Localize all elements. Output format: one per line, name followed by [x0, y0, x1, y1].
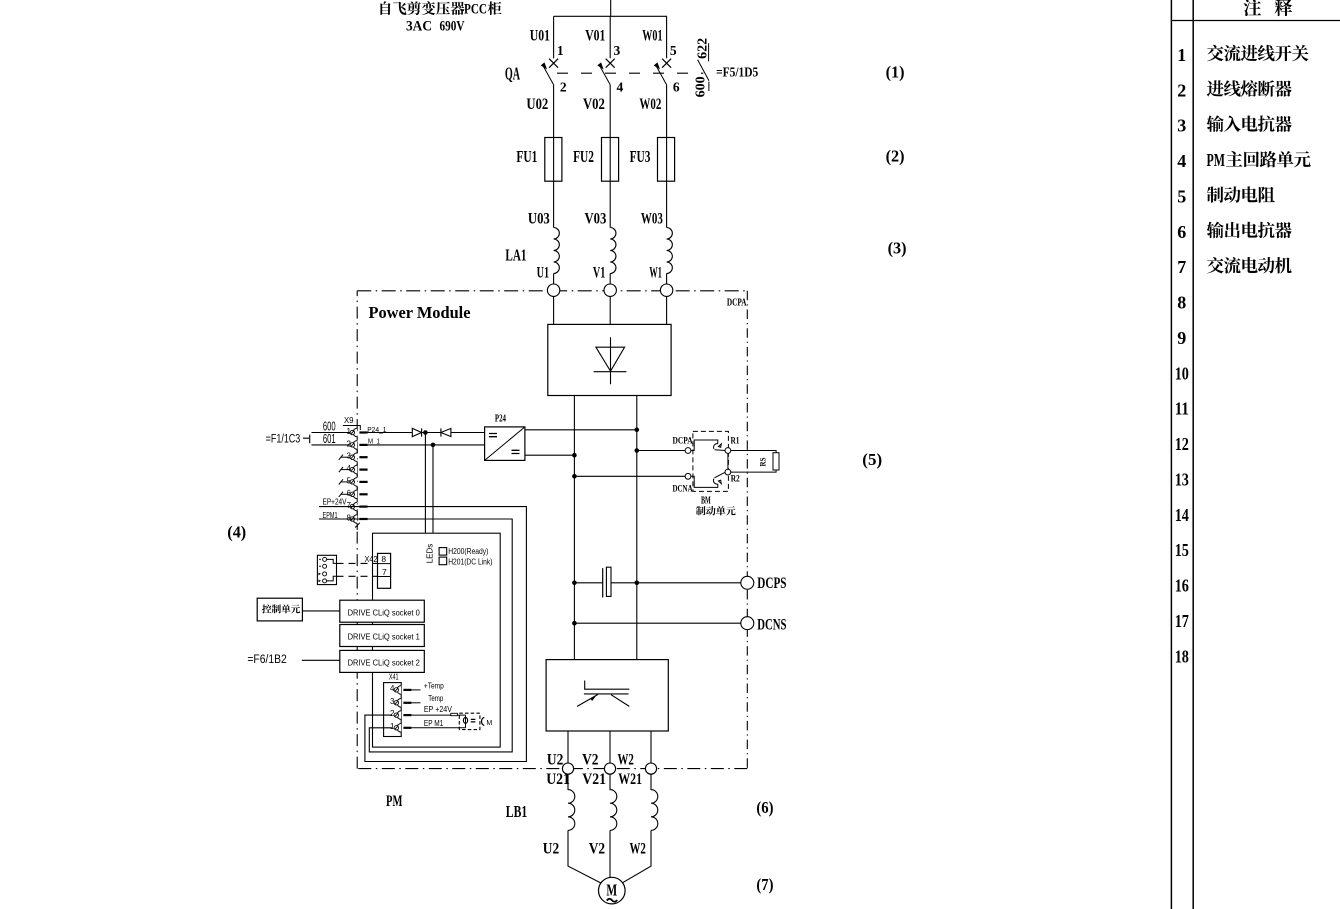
svg-text:R2: R2 — [731, 475, 740, 485]
svg-text:V03: V03 — [585, 211, 607, 228]
junction dot P24 M on left bus — [572, 453, 577, 458]
notes table header rule — [1171, 20, 1340, 22]
svg-text:8: 8 — [381, 554, 386, 564]
svg-text:V21: V21 — [582, 771, 606, 788]
svg-text:4: 4 — [1177, 151, 1186, 171]
notes table header 注 释 — [1244, 0, 1293, 16]
notes table row 3 text 输入电抗器 — [1207, 115, 1292, 132]
svg-text:12: 12 — [1175, 434, 1189, 454]
wire U02 to fuse — [553, 103, 555, 138]
svg-text:(3): (3) — [888, 238, 907, 257]
junction dot cap right bus — [635, 581, 640, 586]
wire R1 to braking resistor — [731, 451, 776, 453]
wire P24 M output to DC minus bus — [525, 454, 575, 456]
wire DCNS from left bus — [574, 622, 743, 624]
svg-text:W1: W1 — [649, 265, 662, 282]
connector X9 top bracket — [343, 426, 361, 431]
svg-text:EP +24V: EP +24V — [424, 705, 453, 714]
svg-text:PCC: PCC — [464, 2, 487, 18]
label 制动单元 — [696, 506, 705, 515]
connector X41 box — [384, 683, 402, 737]
svg-text:2: 2 — [560, 79, 567, 94]
connector X41 pin 1 — [390, 722, 411, 732]
wire D2 to P24 — [451, 432, 485, 434]
svg-text:DCPA: DCPA — [673, 437, 693, 447]
svg-text:=F1/1C3: =F1/1C3 — [266, 433, 301, 445]
LED H201 square — [439, 557, 447, 565]
svg-text:8: 8 — [347, 514, 352, 523]
wire coil to terminal W1 — [666, 274, 668, 285]
svg-text:2: 2 — [390, 709, 395, 718]
junction dot M_1 drop — [431, 443, 436, 448]
wire 600 from X9 to diode — [368, 432, 413, 434]
wire =F6/1B2 to socket 2 — [302, 659, 340, 661]
wire V1 to rectifier — [609, 296, 611, 324]
svg-text:V02: V02 — [583, 96, 605, 113]
junction dot cap left bus — [572, 581, 577, 586]
temperature sensor dashed box — [459, 713, 480, 729]
wire EP +24V to sensor — [411, 714, 465, 716]
svg-text:(1): (1) — [886, 62, 905, 81]
wire below FU2 — [609, 181, 611, 227]
svg-text:V01: V01 — [585, 27, 605, 44]
fuse FU2 — [573, 138, 619, 182]
connector X9 pin 5 — [339, 476, 368, 486]
svg-text:=F6/1B2: =F6/1B2 — [247, 654, 286, 666]
svg-text:DCNS: DCNS — [757, 617, 786, 634]
svg-text:U01: U01 — [530, 27, 550, 44]
svg-text:LB1: LB1 — [506, 802, 527, 821]
svg-text:DRIVE CLiQ socket 0: DRIVE CLiQ socket 0 — [348, 608, 421, 617]
svg-text:13: 13 — [1175, 469, 1189, 489]
svg-text:Temp: Temp — [428, 694, 443, 703]
svg-text:U21: U21 — [546, 771, 570, 788]
svg-text:15: 15 — [1175, 540, 1189, 560]
terminal circle U2 — [562, 763, 573, 774]
svg-text:17: 17 — [1175, 611, 1189, 631]
wire phase drop U01 — [553, 16, 555, 58]
svg-text:3: 3 — [1177, 116, 1186, 136]
svg-text:W21: W21 — [618, 771, 642, 788]
svg-text:1: 1 — [347, 427, 352, 436]
svg-text:9: 9 — [1177, 328, 1186, 348]
svg-text:H200(Ready): H200(Ready) — [448, 547, 489, 556]
wire R1 to R2 — [727, 453, 729, 469]
connector X41 pin 3 — [390, 697, 411, 707]
fuse FU1 — [516, 138, 561, 182]
wire EP M1 to sensor — [411, 727, 465, 729]
connector X41 pin 2 — [390, 709, 411, 719]
wire braking resistor to R2 — [731, 470, 776, 472]
svg-text:600: 600 — [694, 76, 709, 97]
label ~ motor — [607, 899, 617, 902]
svg-text:2: 2 — [1177, 80, 1186, 100]
wire V02 to fuse — [609, 103, 611, 138]
svg-text:(2): (2) — [886, 147, 905, 166]
inductor LB1 W coil — [651, 774, 658, 830]
notes table vertical line left — [1170, 0, 1172, 909]
temperature sensor KTY symbol — [465, 715, 467, 728]
svg-text:U03: U03 — [528, 211, 550, 228]
wire U1 to rectifier — [553, 296, 555, 324]
subtitle text 3AC 690V — [406, 19, 465, 35]
rectifier diode symbol — [594, 337, 627, 384]
notes table row 2 text 进线熔断器 — [1207, 80, 1292, 96]
wire EP+24V to X9 pin7 — [319, 506, 351, 508]
svg-text:W01: W01 — [642, 27, 662, 44]
svg-text:V2: V2 — [582, 751, 598, 768]
svg-text:X42: X42 — [365, 554, 378, 564]
connector X9 pin 6 — [339, 489, 368, 499]
connector X9 pin 7 — [347, 501, 368, 511]
terminal circle V1 — [604, 284, 616, 296]
wire capacitor to DCPS — [611, 582, 743, 584]
connector X9 body segment — [356, 499, 358, 503]
wire V2 to motor — [609, 830, 611, 877]
svg-text:(4): (4) — [227, 522, 246, 541]
svg-text:3AC: 3AC — [406, 19, 432, 35]
wire inverter output W2 — [650, 731, 652, 763]
svg-text:M: M — [486, 720, 492, 727]
svg-text:6: 6 — [1177, 222, 1186, 242]
wire EPM1 wrap loop — [351, 519, 512, 752]
connector X9 pin 1 — [347, 427, 368, 437]
svg-text:7: 7 — [1177, 257, 1186, 277]
connector X42 box — [378, 553, 391, 588]
wire P24 plus output to DC bus — [525, 429, 637, 431]
DRIVE CLiQ socket 0 box — [340, 600, 425, 622]
connector X42 mating block — [317, 555, 336, 584]
inverter IGBT symbol — [577, 681, 629, 707]
svg-text:LA1: LA1 — [505, 246, 526, 265]
wire below FU1 — [553, 181, 555, 227]
svg-text:5: 5 — [347, 476, 352, 485]
svg-text:6: 6 — [673, 79, 680, 94]
connector X9 body segment — [356, 449, 358, 453]
wire top supply bus — [554, 0, 667, 16]
wire 601 to X9 pin2 — [312, 444, 352, 446]
wire capacitor link — [574, 582, 602, 584]
svg-text:BM: BM — [701, 496, 711, 507]
svg-text:X9: X9 — [344, 415, 354, 425]
connector X9 pin 2 — [347, 439, 368, 449]
svg-text:X41: X41 — [389, 672, 399, 682]
svg-text:10: 10 — [1175, 363, 1189, 383]
svg-text:DCPS: DCPS — [757, 575, 786, 592]
svg-text:RS: RS — [759, 457, 768, 466]
svg-text:5: 5 — [1177, 186, 1186, 206]
wire W1 to rectifier — [666, 296, 668, 324]
terminal circle R2 — [725, 469, 731, 475]
wire W2 to motor — [623, 830, 651, 882]
connector X41 pin 4 — [390, 684, 411, 694]
svg-text:EP+24V: EP+24V — [323, 496, 347, 506]
notes table row 5 text 制动电阻 — [1207, 186, 1275, 202]
title text 自飞剪变压器PCC柜 — [380, 1, 501, 17]
svg-text:DCNA: DCNA — [673, 484, 693, 494]
wire 600 to X9 pin1 — [312, 432, 352, 434]
rectifier box — [548, 324, 671, 395]
wire DC minus bus (left) — [573, 396, 575, 660]
svg-text:18: 18 — [1175, 646, 1189, 666]
svg-text:1: 1 — [1177, 45, 1186, 65]
svg-text:7: 7 — [382, 567, 387, 577]
wire inverter output U2 — [567, 731, 569, 763]
notes table vertical line right — [1192, 0, 1194, 909]
svg-text:EP M1: EP M1 — [424, 719, 444, 728]
connector X9 body segment — [356, 511, 358, 515]
svg-text:FU3: FU3 — [630, 147, 651, 166]
notes table row 6 text 输出电抗器 — [1207, 222, 1292, 239]
svg-text:V1: V1 — [593, 265, 606, 282]
auxiliary contact of QA — [698, 43, 709, 91]
svg-text:7: 7 — [347, 501, 352, 510]
notes table row 4 text PM主回路单元 — [1207, 150, 1311, 170]
svg-text:+Temp: +Temp — [424, 681, 444, 690]
motor winding bracket at sensor — [481, 717, 484, 725]
junction dot DCPA on right bus — [635, 448, 640, 453]
svg-text:W2: W2 — [630, 840, 646, 857]
inductor LA1 U coil — [554, 228, 560, 274]
svg-text:U1: U1 — [537, 265, 550, 282]
svg-text:14: 14 — [1175, 505, 1189, 525]
BM upper chopper path — [691, 440, 725, 451]
svg-text:DRIVE CLiQ socket 1: DRIVE CLiQ socket 1 — [348, 633, 420, 642]
svg-text:4: 4 — [347, 464, 352, 473]
capacitor DC link — [603, 567, 611, 597]
svg-text:U2: U2 — [543, 840, 559, 857]
dashed wire X42 lower — [337, 575, 378, 577]
wire phase drop V01 — [609, 16, 611, 58]
connector X9 body segment — [356, 486, 358, 490]
junction dot DCNS left bus — [572, 621, 577, 626]
wire below FU3 — [666, 181, 668, 227]
terminal circle DCNA — [685, 473, 691, 479]
svg-text:1: 1 — [557, 43, 564, 58]
wire EP+24V wrap loop — [351, 507, 526, 762]
wire drop to control module from M_1 — [432, 445, 434, 533]
inductor LB1 U coil — [568, 774, 575, 830]
switch QA pole 5-6 (W) — [655, 43, 680, 103]
BM lower chopper path — [691, 472, 725, 487]
svg-text:W2: W2 — [618, 751, 634, 768]
svg-text:(6): (6) — [756, 798, 773, 817]
svg-text:6: 6 — [347, 489, 352, 498]
junction dot P24 plus on right bus — [635, 428, 640, 433]
power module dash-dot boundary — [357, 291, 747, 769]
wire inverter output V2 — [609, 731, 611, 763]
svg-text:FU1: FU1 — [516, 147, 537, 166]
notes table row 7 text 交流电动机 — [1207, 257, 1292, 274]
wire M_1 to P24 — [368, 444, 485, 446]
wire control unit to socket 0 — [302, 610, 339, 612]
svg-text:H201(DC Link): H201(DC Link) — [448, 557, 493, 566]
bracket =F1/1C3 — [303, 435, 310, 444]
svg-text:Power Module: Power Module — [369, 303, 471, 322]
svg-text:5: 5 — [670, 43, 677, 58]
connector X9 body segment — [356, 437, 358, 441]
wire DC plus bus (right) — [636, 396, 638, 660]
svg-text:PM: PM — [386, 793, 402, 810]
terminal circle U1 — [547, 284, 559, 296]
svg-text:LEDs: LEDs — [426, 544, 435, 564]
wire diode junction — [422, 432, 441, 434]
control unit box 控制单元 — [257, 598, 302, 621]
svg-text:3: 3 — [614, 43, 621, 58]
svg-text:4: 4 — [617, 79, 624, 94]
braking unit BM dashed box — [693, 431, 729, 491]
svg-text:=F5/1D5: =F5/1D5 — [716, 64, 758, 79]
inductor LA1 W coil — [667, 228, 673, 274]
svg-text:16: 16 — [1175, 576, 1189, 596]
svg-text:V2: V2 — [589, 840, 605, 857]
svg-text:8: 8 — [1177, 293, 1186, 313]
wire DCPA from right bus — [637, 450, 685, 452]
wire EPM1 to X9 pin8 — [319, 518, 351, 520]
DRIVE CLiQ socket 2 box — [340, 650, 425, 672]
svg-text:DRIVE CLiQ socket 2: DRIVE CLiQ socket 2 — [348, 659, 420, 668]
LED H200 square — [439, 548, 447, 556]
fuse FU3 — [630, 138, 675, 182]
svg-text:W03: W03 — [641, 211, 663, 228]
connector X9 body segment — [356, 474, 358, 478]
diode D1 — [412, 428, 421, 436]
terminal circle W2 — [645, 763, 656, 774]
control module box — [373, 533, 501, 747]
svg-text:U2: U2 — [547, 751, 563, 768]
terminal circle V2 — [604, 763, 615, 774]
svg-text:PM: PM — [1207, 150, 1226, 170]
braking resistor RS — [773, 453, 779, 470]
svg-text:690V: 690V — [440, 19, 465, 35]
inductor LA1 V coil — [610, 228, 616, 274]
svg-text:11: 11 — [1175, 399, 1189, 419]
wire +Temp stub — [411, 689, 420, 691]
dashed wire X42 upper — [337, 562, 378, 564]
switch QA pole 3-4 (V) — [599, 43, 624, 103]
svg-text:DCPA: DCPA — [727, 298, 747, 309]
terminal circle DCPA — [685, 448, 691, 454]
wire drop to control module from 600 — [424, 433, 426, 533]
svg-text:2: 2 — [347, 439, 352, 448]
connector X9 pin 8 — [347, 514, 368, 524]
wire coil to terminal V1 — [609, 274, 611, 285]
switch QA pole 1-2 (U) — [542, 43, 567, 103]
terminal circle W1 — [660, 284, 672, 296]
svg-text:3: 3 — [347, 452, 352, 461]
wire phase drop W01 — [666, 16, 668, 58]
connector X9 tail — [355, 523, 360, 530]
svg-text:622: 622 — [695, 38, 710, 59]
svg-text:(5): (5) — [862, 450, 882, 469]
wire W02 to fuse — [666, 103, 668, 138]
svg-text:P24: P24 — [495, 413, 506, 424]
junction dot 600/24V drop — [423, 430, 428, 435]
svg-text:M_1: M_1 — [368, 437, 380, 446]
power supply P24 box — [485, 427, 525, 461]
svg-text:M: M — [606, 881, 617, 900]
connector X9 pin 4 — [339, 464, 368, 474]
wire coil to terminal U1 — [553, 274, 555, 285]
dashed mechanical link of QA — [557, 72, 703, 74]
svg-text:QA: QA — [505, 64, 520, 84]
svg-text:4: 4 — [390, 684, 395, 693]
svg-text:(7): (7) — [756, 875, 773, 894]
wire Temp stub — [411, 702, 420, 704]
svg-text:601: 601 — [323, 432, 336, 446]
svg-text:1: 1 — [390, 722, 395, 731]
diode D2 (reversed) — [441, 428, 451, 436]
svg-text:W02: W02 — [639, 96, 661, 113]
terminal circle DCNS — [741, 617, 754, 630]
junction dot DCNA on left bus — [572, 474, 577, 479]
wire U2 to motor — [568, 830, 600, 882]
DRIVE CLiQ socket 1 box — [340, 625, 425, 647]
connector X9 body segment — [356, 462, 358, 466]
svg-text:U02: U02 — [526, 96, 548, 113]
svg-text:FU2: FU2 — [573, 147, 594, 166]
motor M circle — [599, 877, 626, 904]
terminal circle DCPS — [741, 576, 754, 589]
terminal circle R1 — [725, 448, 731, 454]
inductor LB1 V coil — [610, 774, 617, 830]
connector X9 pin 3 — [339, 452, 368, 462]
inverter box — [546, 660, 668, 731]
wire DCNA from left bus — [574, 475, 685, 477]
svg-text:3: 3 — [390, 697, 395, 706]
notes table row 1 text 交流进线开关 — [1207, 45, 1308, 62]
svg-text:R1: R1 — [731, 437, 740, 447]
